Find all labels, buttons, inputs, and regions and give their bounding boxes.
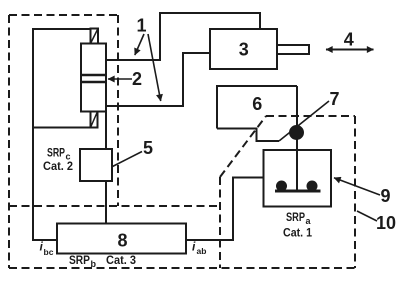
arrow 4 double headed (326, 49, 374, 51)
svg-text:9: 9 (380, 186, 390, 206)
svg-text:8: 8 (117, 231, 127, 251)
svg-text:5: 5 (143, 138, 153, 158)
block 8 (57, 224, 186, 254)
rail inside box 9 (275, 190, 321, 193)
wire lower chamber right then up into block 3 left (106, 53, 210, 106)
pointer line label 10 (357, 211, 377, 221)
pointer line 7 through pulley (279, 101, 329, 141)
svg-text:3: 3 (239, 40, 249, 60)
svg-text:SRP: SRP (47, 146, 65, 160)
svg-text:Cat. 3: Cat. 3 (106, 253, 136, 267)
dashed box SRPa region left edge (219, 177, 221, 268)
piston rod upper of cylinder 2 (91, 29, 99, 44)
dashed box SRPa region diagonal edge (220, 116, 266, 177)
dashed box SRPc region left edge (continues to bottom region) (8, 15, 10, 268)
pointer arrow label 2 (108, 78, 132, 80)
dashed box SRPc region top edge (9, 14, 118, 16)
dashed bottom edge shared SRPb SRPa (9, 267, 355, 269)
block 6 bottom step (217, 129, 279, 142)
wire upper chamber to top then to block 3 (106, 13, 260, 60)
dashed box SRPc region right edge (117, 15, 119, 206)
wire loop middle from left vertical to lower rod (33, 127, 91, 129)
pointer arrow label 1 left (135, 34, 144, 55)
block 3 (210, 29, 277, 69)
belt vertical from block 6 through pulley to carriage rail (296, 86, 298, 190)
block 6 outline top and left (217, 86, 297, 129)
svg-text:10: 10 (376, 213, 396, 233)
piston plate lower line (81, 81, 106, 84)
svg-text:i: i (192, 240, 196, 254)
svg-text:a: a (306, 216, 312, 226)
piston rod lower of cylinder 2 (91, 112, 98, 128)
svg-text:1: 1 (136, 16, 146, 36)
wire loop top from left loop to piston rod (33, 28, 91, 30)
piston plate upper line (81, 74, 106, 77)
wire left vertical long from loop top to ibc corner (32, 28, 34, 240)
svg-text:Cat. 2: Cat. 2 (43, 159, 73, 173)
cylinder 2 body (81, 44, 106, 112)
dashed box SRPa region top edge (266, 115, 355, 117)
block 5 (80, 149, 112, 181)
pulley 7 (289, 125, 304, 140)
shaft of block 3 (277, 45, 309, 54)
svg-text:4: 4 (344, 30, 354, 50)
svg-text:SRP: SRP (286, 210, 305, 224)
pointer line label 5 (113, 152, 143, 167)
wire from iab up into SRPa box 9 (186, 178, 264, 241)
svg-text:Cat. 1: Cat. 1 (283, 226, 312, 240)
wire ibc horizontal into block 8 (32, 239, 57, 241)
roller right in box 9 (307, 181, 318, 192)
svg-text:b: b (91, 259, 97, 269)
wire cylinder bottom to block 5 (105, 112, 107, 150)
svg-text:6: 6 (252, 94, 262, 114)
box 9 SRPa unit (264, 150, 332, 207)
svg-text:ab: ab (197, 246, 207, 256)
pointer arrow label 9 (334, 178, 380, 195)
wire block 5 to block 8 (105, 181, 107, 224)
svg-text:SRP: SRP (69, 253, 90, 267)
dashed box SRPb region top edge (9, 205, 220, 207)
roller left in box 9 (276, 181, 287, 192)
dashed box SRPa region right edge (354, 116, 356, 268)
svg-text:7: 7 (329, 89, 339, 109)
svg-text:2: 2 (132, 69, 142, 89)
svg-text:bc: bc (44, 247, 54, 257)
pointer arrow label 1 right (148, 34, 161, 101)
